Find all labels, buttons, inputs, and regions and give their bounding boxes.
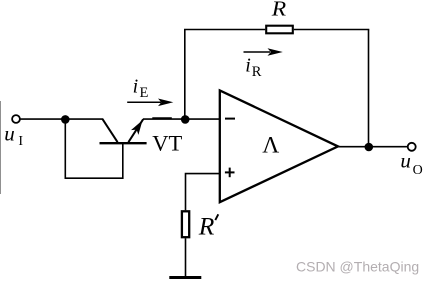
svg-text:VT: VT	[152, 131, 182, 156]
svg-text:E: E	[140, 85, 149, 101]
svg-text:CSDN @ThetaQing: CSDN @ThetaQing	[296, 259, 419, 275]
wire inverting input	[185, 118, 221, 120]
svg-text:Λ: Λ	[262, 132, 279, 158]
label u_O	[400, 148, 422, 178]
ground	[169, 276, 201, 279]
wire feedback top left	[184, 29, 265, 31]
current arrow i_E	[127, 99, 173, 107]
resistor R'	[182, 211, 189, 237]
wire output	[338, 146, 408, 148]
wire feedback left vertical	[184, 30, 186, 120]
wire R' to ground	[185, 238, 187, 277]
wire emitter thick segment	[152, 117, 172, 119]
node inverting-input junction	[181, 115, 190, 124]
svg-text:i: i	[245, 55, 251, 77]
output terminal	[408, 143, 416, 151]
label R'	[198, 212, 219, 241]
svg-text:I: I	[18, 134, 23, 149]
wire input horizontal	[20, 118, 103, 120]
node input junction	[61, 115, 70, 124]
op-amp U1	[220, 90, 338, 202]
input terminal	[12, 115, 20, 123]
svg-text:R: R	[271, 0, 287, 20]
svg-text:R: R	[198, 212, 215, 241]
label i_R	[245, 55, 261, 80]
svg-text:i: i	[133, 76, 139, 98]
svg-text:u: u	[400, 148, 411, 172]
current arrow i_R	[244, 48, 283, 56]
transistor VT	[100, 119, 147, 143]
wire non-inverting input	[186, 174, 220, 211]
wire feedback right vertical	[368, 30, 370, 147]
wire emitter to inverting node	[143, 118, 185, 120]
wire left-edge fragment	[0, 101, 2, 194]
svg-text:u: u	[4, 122, 15, 146]
wire feedback top right	[294, 29, 370, 31]
wire base tie loop	[65, 119, 123, 178]
svg-text:O: O	[413, 163, 423, 178]
svg-text:R: R	[252, 64, 262, 80]
label i_E	[133, 76, 149, 101]
node output junction	[365, 143, 374, 152]
label u_I	[4, 122, 23, 150]
resistor R	[266, 26, 293, 34]
